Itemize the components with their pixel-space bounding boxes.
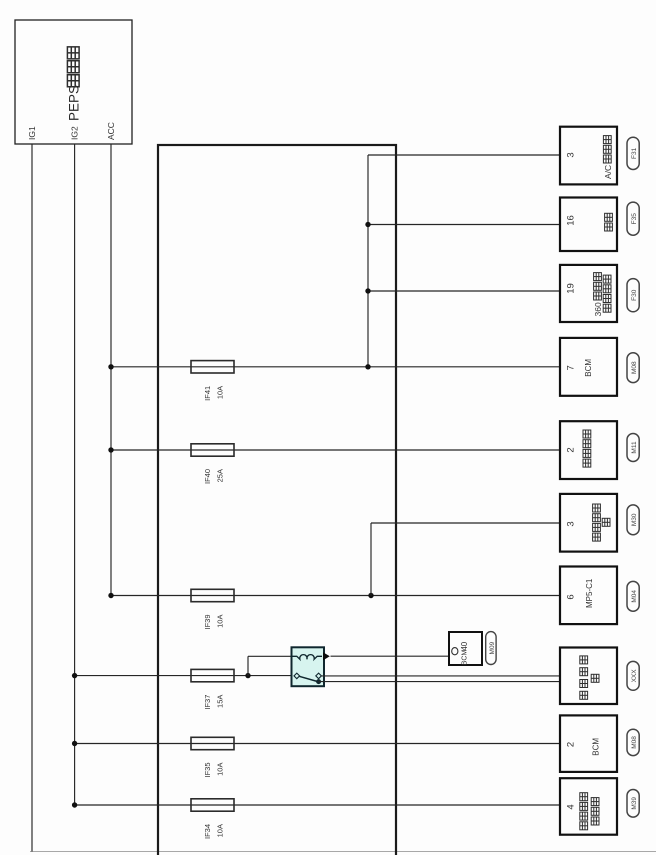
svg-text:IF34: IF34 — [203, 824, 212, 839]
svg-text:BCM: BCM — [592, 738, 601, 756]
wire to relay coil — [247, 656, 249, 675]
svg-text:6: 6 — [566, 594, 577, 599]
label XKZQ line2 — [603, 304, 611, 312]
svg-text:15A: 15A — [216, 695, 225, 708]
node IF41 to dist bus — [365, 364, 370, 369]
connector XXX — [627, 661, 639, 690]
svg-text:19: 19 — [566, 283, 577, 294]
wire ACC bus — [110, 144, 112, 596]
wire IF40 branch — [111, 449, 563, 451]
svg-text:16: 16 — [566, 215, 577, 226]
wire mirror-switch branch — [370, 523, 372, 596]
component vehicle power supply — [560, 421, 617, 479]
svg-text:IF41: IF41 — [203, 386, 212, 401]
pin circle — [452, 648, 458, 655]
wire wiper feed 2 — [319, 681, 563, 683]
component gateway — [560, 198, 617, 252]
svg-text:PEPS: PEPS — [67, 85, 82, 121]
node IF34 tap — [72, 802, 77, 807]
label CGQ line2 — [591, 817, 599, 825]
svg-text:M09: M09 — [489, 641, 496, 654]
svg-text:BCM: BCM — [584, 359, 593, 377]
wire to A/C controller — [368, 154, 563, 156]
node IF39 mirror tap — [368, 593, 373, 598]
svg-text:M30: M30 — [631, 513, 638, 526]
svg-text:IF39: IF39 — [203, 615, 212, 630]
svg-text:360: 360 — [593, 302, 603, 316]
node IF40 tap — [108, 447, 113, 452]
component BCM (pin 2) — [560, 715, 617, 772]
BCM pin40 box — [449, 632, 482, 665]
svg-text:3: 3 — [566, 521, 577, 526]
connector M11 — [627, 434, 639, 462]
connector M08 — [627, 729, 639, 755]
svg-text:M04: M04 — [631, 590, 638, 603]
relay switch NO contact — [316, 673, 322, 679]
svg-text:2: 2 — [566, 447, 577, 452]
label HYGD line1 — [580, 691, 588, 699]
connector M39 — [627, 790, 639, 818]
fuse IF40 25A — [191, 444, 234, 456]
svg-text:4: 4 — [566, 804, 577, 809]
svg-text:M39: M39 — [631, 797, 638, 810]
node IF37 tap — [72, 673, 77, 678]
fuse IF35 10A — [191, 737, 234, 749]
label J line2 — [591, 674, 599, 682]
connector F30 — [627, 279, 639, 312]
svg-text:3: 3 — [566, 152, 577, 157]
connector M30 — [627, 505, 639, 535]
component MP5-C1 — [560, 567, 617, 625]
wire to 360 camera controller — [368, 290, 563, 292]
svg-text:M11: M11 — [631, 441, 638, 454]
fuse IF39 10A — [191, 589, 234, 601]
svg-text:IF40: IF40 — [203, 469, 212, 484]
relay switch common contact — [294, 673, 300, 679]
component BCM (pin 7) — [560, 338, 617, 396]
wire IF34 branch — [75, 804, 563, 806]
connector M04 — [627, 581, 639, 611]
node IF35 tap — [72, 741, 77, 746]
wire IG2 bus — [74, 144, 76, 805]
svg-text:10A: 10A — [216, 615, 225, 628]
wire IF41 branch — [111, 366, 563, 368]
wire ACC distribution bus — [367, 155, 369, 367]
svg-text:10A: 10A — [216, 824, 225, 837]
wire IG1 bus — [31, 144, 33, 852]
svg-text:ACC: ACC — [106, 122, 116, 140]
relay coil output arrow — [323, 652, 330, 660]
wire to gateway — [368, 224, 563, 226]
svg-text:10A: 10A — [216, 763, 225, 776]
svg-text:IG1: IG1 — [27, 126, 37, 140]
wire IF35 branch — [75, 743, 563, 745]
svg-text:IF37: IF37 — [203, 695, 212, 710]
relay K (rear wiper relay) — [292, 647, 325, 686]
component mirror switch — [560, 494, 617, 552]
fuse IF41 10A — [191, 361, 234, 373]
svg-text:2: 2 — [566, 742, 577, 747]
node gateway junction — [365, 222, 370, 227]
svg-text:M08: M08 — [631, 361, 638, 374]
svg-text:IG2: IG2 — [70, 126, 80, 140]
fuse box outline — [158, 145, 396, 855]
svg-text:F31: F31 — [631, 147, 638, 159]
relay switch NC contact — [316, 679, 321, 684]
wire coil to BCM pin40 — [331, 655, 450, 657]
svg-text:M08: M08 — [631, 736, 638, 749]
svg-text:F35: F35 — [631, 213, 638, 225]
svg-text:IF35: IF35 — [203, 763, 212, 778]
relay coil tap node — [245, 673, 250, 678]
svg-text:F30: F30 — [631, 289, 638, 301]
connector F31 — [627, 137, 639, 169]
svg-text:BCM: BCM — [462, 650, 469, 666]
wire wiper feed 1 — [321, 675, 563, 677]
component A/C controller — [560, 127, 617, 185]
wire IF39 branch — [111, 595, 563, 597]
page edge line — [30, 851, 656, 853]
PEPS relay (PEPS continue-electric box) — [15, 20, 132, 144]
component rear wiper motor — [560, 648, 617, 705]
node 360 junction — [365, 288, 370, 293]
component 360 panorama camera controller — [560, 265, 617, 322]
svg-text:10A: 10A — [216, 386, 225, 399]
node IF39 tap — [108, 593, 113, 598]
component cabin temperature sensor — [560, 778, 617, 835]
svg-text:XXX: XXX — [631, 669, 638, 683]
svg-text:A/C: A/C — [603, 165, 613, 179]
connector F35 — [627, 202, 639, 235]
fuse IF34 10A — [191, 799, 234, 811]
label WG — [605, 223, 613, 231]
fuse IF37 15A — [191, 669, 234, 681]
relay switch blade — [299, 676, 317, 681]
relay coil — [292, 655, 322, 660]
connector M09 — [486, 632, 496, 665]
label CZDY — [583, 459, 591, 467]
svg-text:7: 7 — [566, 365, 577, 370]
label G line2 — [602, 518, 610, 526]
node IF41 tap — [108, 364, 113, 369]
label CNWD line1 — [580, 822, 588, 830]
connector M08 — [627, 353, 639, 383]
svg-text:MP5-C1: MP5-C1 — [585, 578, 594, 608]
label HSJK line1 — [593, 533, 601, 541]
wire IF37 branch — [75, 675, 295, 677]
svg-text:25A: 25A — [216, 469, 225, 482]
